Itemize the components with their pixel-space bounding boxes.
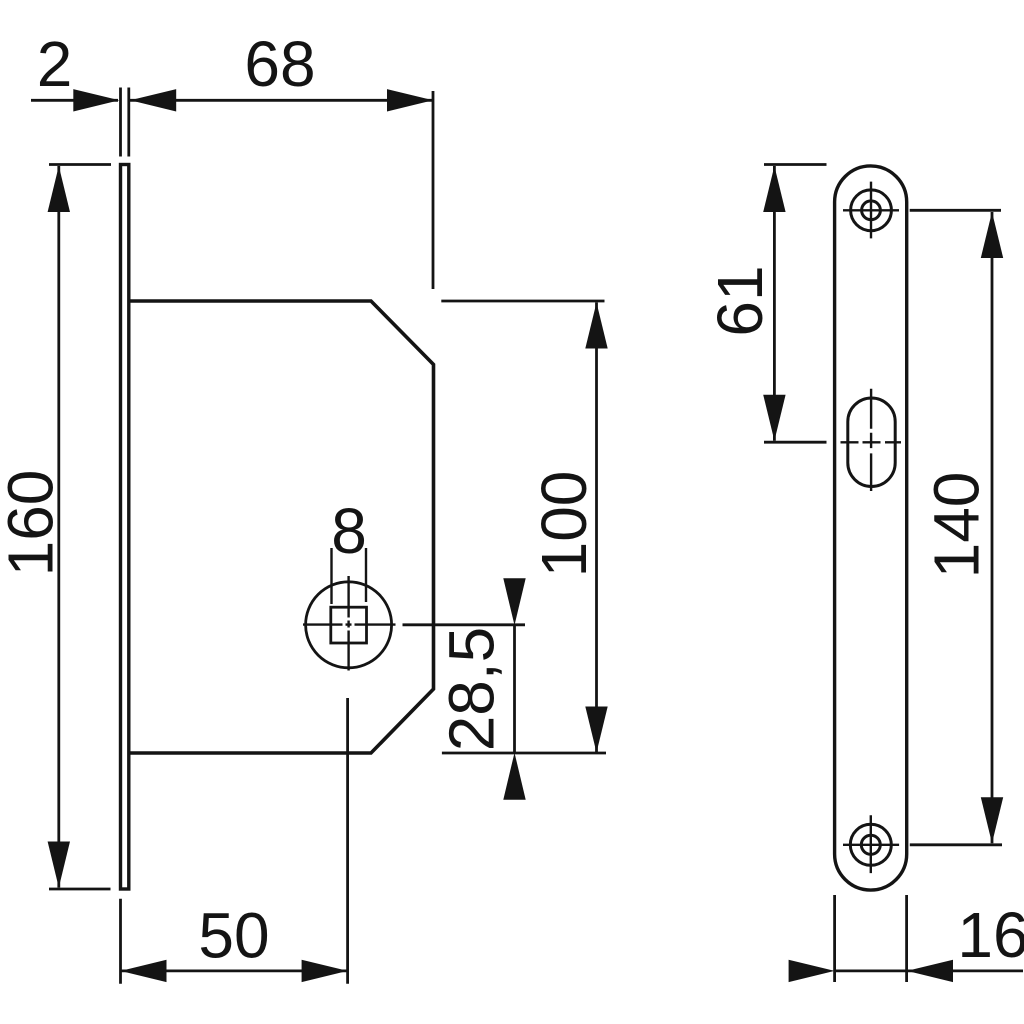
svg-text:50: 50 [198,900,269,972]
dim 2: line [31,99,118,102]
faceplate side view (left) [121,165,129,890]
dim 50 line [121,970,348,973]
spindle crosshair horizontal [303,623,396,625]
lock body outline [129,301,434,753]
dim 68 extension line [432,91,435,289]
dim 160 arrows [48,166,70,212]
dim 61 ticks [764,165,827,443]
dim 140 line [991,212,994,843]
dim 8: extension lines [332,548,367,604]
dim 2: extension lines above faceplate [121,88,129,157]
oval slot [848,398,895,487]
dim 68 right arrow [387,89,433,111]
svg-text:160: 160 [0,470,67,577]
svg-text:28,5: 28,5 [436,627,508,752]
dim 100: vertical line [595,303,598,753]
bottom hole [850,824,891,865]
dim 16 extension lines [835,895,907,982]
svg-text:16: 16 [957,899,1024,971]
dim 160 ticks [49,165,111,890]
svg-text:140: 140 [921,472,993,579]
svg-text:8: 8 [331,495,367,567]
dim 2/68 shared right arrow [130,89,176,111]
dim 140 extension lines [910,210,1002,845]
dim 61 line [773,166,776,441]
spindle circle [306,582,392,668]
top hole [851,190,892,231]
dim 160: vertical line [57,166,60,888]
dim 68: line [130,99,433,102]
svg-text:61: 61 [704,265,776,336]
dim 100: extension lines [441,301,606,753]
dim 2 left arrow [73,89,119,111]
dim 28,5 extension from spindle center [403,623,526,626]
svg-text:68: 68 [244,28,315,100]
faceplate front view (right) [835,166,907,890]
spindle square [331,607,367,643]
dim 16 line [835,970,1023,973]
svg-text:100: 100 [528,471,600,578]
dim 50 extension lines [121,698,348,984]
dim 28,5 vertical line [513,625,516,753]
svg-text:2: 2 [37,28,73,100]
spindle crosshair vertical [347,576,349,671]
